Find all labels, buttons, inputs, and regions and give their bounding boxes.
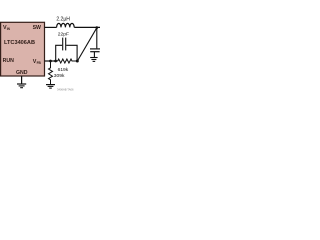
node junction dot at 22pF branch	[54, 60, 57, 63]
label 22pF	[58, 32, 69, 38]
wire GND pin down from IC	[21, 76, 23, 84]
label 2.2uH	[56, 16, 70, 22]
svg-text:SW: SW	[33, 25, 41, 31]
pin label VFB	[33, 59, 42, 65]
svg-text:619k: 619k	[58, 67, 69, 73]
svg-text:309k: 309k	[54, 73, 65, 79]
svg-text:3406AB TA06: 3406AB TA06	[57, 87, 74, 91]
capacitor C2 22pF plates	[63, 38, 66, 51]
svg-text:RUN: RUN	[3, 58, 14, 64]
pin label GND	[16, 70, 28, 76]
svg-text:FB: FB	[37, 61, 42, 65]
pin label SW	[33, 25, 41, 31]
ground for resistor R2	[46, 85, 55, 89]
svg-text:2.2µH: 2.2µH	[56, 16, 70, 22]
node junction dot at divider tap right	[76, 60, 79, 63]
label 619k	[58, 67, 69, 73]
resistor R1 619k horizontal zigzag	[58, 59, 77, 63]
wire feedback diagonal from divider tap to VOUT	[77, 28, 96, 61]
figure caption 3406AB TA06	[57, 87, 74, 91]
svg-text:GND: GND	[16, 70, 28, 76]
wire VOUT corner down to output capacitor	[96, 28, 98, 49]
svg-text:LTC3406AB: LTC3406AB	[4, 40, 35, 46]
wire VOUT: inductor to right edge	[74, 26, 100, 28]
node junction dot at 309k branch	[49, 60, 52, 63]
label 309k	[54, 73, 65, 79]
wire 22pF loop: left riser, top runs and right riser	[56, 45, 77, 61]
inductor L1 2.2uH	[57, 23, 75, 27]
resistor R2 309k vertical zigzag	[49, 61, 53, 84]
IC U1 LTC3406AB body	[1, 22, 45, 76]
capacitor C1 output cap plates	[90, 49, 100, 57]
node VOUT junction dot	[96, 26, 99, 29]
svg-text:22pF: 22pF	[58, 32, 69, 38]
pin label RUN	[3, 58, 14, 64]
ground for IC GND pin	[17, 84, 26, 88]
pin label VIN	[3, 25, 11, 31]
IC part number label LTC3406AB	[4, 40, 35, 46]
wire SW pin to inductor	[45, 26, 57, 28]
ground for output capacitor	[90, 58, 97, 62]
wire VFB pin to divider	[45, 60, 58, 62]
